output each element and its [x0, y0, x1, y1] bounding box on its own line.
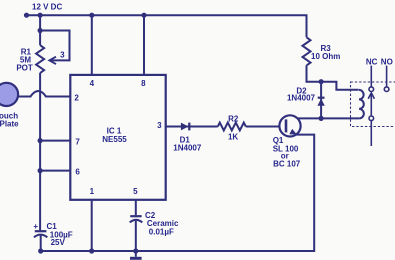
resistor R3 zigzag	[303, 37, 311, 65]
resistor R2 zigzag	[218, 123, 246, 131]
wire pin 3 to D1	[166, 126, 218, 128]
touch plate	[0, 83, 18, 106]
relay armature arrowhead	[368, 93, 374, 99]
wire pin 7	[40, 140, 70, 142]
svg-text:10 Ohm: 10 Ohm	[311, 52, 340, 61]
resistor R1 zigzag	[36, 45, 44, 73]
diode D1	[181, 123, 189, 131]
svg-text:3: 3	[157, 121, 162, 130]
capacitor C2 plates	[130, 215, 141, 217]
transistor Q1 emitter arrowhead	[289, 129, 297, 135]
wire R1 bottom vertical to C1	[39, 73, 41, 230]
junction R1 top	[38, 13, 43, 18]
wire pin 4 to rail	[91, 15, 93, 75]
junction pin7	[38, 138, 43, 143]
capacitor C1 bottom stub	[40, 235, 42, 251]
svg-text:R2: R2	[228, 115, 239, 124]
wire R2 to Q1 base	[246, 126, 286, 128]
svg-text:Plate: Plate	[0, 120, 19, 129]
svg-text:25V: 25V	[51, 238, 66, 247]
op-amp IC1 NE555 body	[70, 75, 165, 200]
transistor Q1 emitter diagonal	[286, 129, 297, 134]
svg-text:1K: 1K	[228, 132, 238, 141]
wire pin 6	[40, 170, 70, 172]
wire pin 8 to rail	[143, 15, 145, 75]
wire R1 top stub	[39, 15, 41, 45]
svg-text:NC: NC	[366, 57, 378, 66]
wire pin 1 down to ground rail	[91, 200, 93, 251]
ground symbol	[135, 251, 137, 257]
svg-text:NO: NO	[381, 57, 393, 66]
relay common wire down	[370, 121, 372, 146]
relay NO contact line	[386, 66, 388, 87]
diode D2 vertical wire	[320, 82, 322, 119]
junction wiper top	[38, 28, 43, 33]
transistor Q1 circle	[279, 115, 300, 136]
wire touch plate to pin 2 with hop	[18, 91, 71, 96]
svg-text:NE555: NE555	[102, 135, 127, 144]
transistor Q1 collector diagonal	[286, 119, 298, 123]
junction C1 bottom	[38, 248, 43, 253]
junction pin4 rail	[89, 13, 94, 18]
wire top +12V rail	[27, 15, 307, 37]
relay NC contact circle	[369, 87, 374, 92]
diode D2 symbol	[317, 99, 324, 106]
svg-text:6: 6	[75, 167, 80, 176]
capacitor C1 plates	[35, 230, 47, 232]
wire POT wiper loop	[40, 31, 69, 61]
junction pin8 rail	[141, 13, 146, 18]
svg-text:1: 1	[90, 187, 95, 196]
relay dashed enclosure	[351, 82, 395, 127]
junction pin6	[38, 168, 43, 173]
junction ground node	[133, 248, 138, 253]
wire pin 5 down to C2	[135, 200, 137, 215]
junction supply left	[24, 13, 29, 18]
junction D2 bottom	[319, 116, 324, 121]
svg-text:12 V DC: 12 V DC	[32, 3, 62, 12]
relay coil	[359, 90, 364, 119]
junction pin1 bottom	[89, 248, 94, 253]
svg-text:2: 2	[74, 94, 79, 103]
wire collector to coil bottom	[298, 117, 360, 119]
svg-text:3: 3	[60, 50, 65, 59]
svg-text:1N4007: 1N4007	[173, 144, 202, 153]
pot wiper arrowhead	[49, 57, 56, 64]
svg-text:7: 7	[75, 137, 80, 146]
svg-text:4: 4	[90, 79, 95, 88]
svg-text:8: 8	[141, 79, 146, 88]
svg-text:BC 107: BC 107	[273, 160, 301, 169]
relay armature line	[370, 93, 372, 116]
relay NO contact circle	[384, 87, 389, 92]
svg-text:1N4007: 1N4007	[287, 93, 316, 102]
svg-text:5: 5	[133, 187, 138, 196]
wire bottom ground rail and emitter return	[41, 135, 315, 251]
relay NC contact line	[370, 66, 372, 87]
svg-text:POT: POT	[16, 64, 33, 73]
relay armature pivot circle	[369, 116, 374, 121]
wire C2 bottom stub	[135, 221, 137, 251]
svg-text:0.01µF: 0.01µF	[149, 227, 174, 236]
svg-text:+: +	[33, 222, 38, 231]
transistor Q1 base bar	[285, 119, 288, 132]
junction D2 top	[319, 79, 324, 84]
wire R3 bottom to D2 and relay coil	[307, 65, 359, 89]
